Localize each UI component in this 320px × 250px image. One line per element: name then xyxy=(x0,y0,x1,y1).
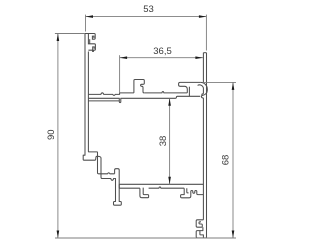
middle flange top surface left part with serration bumps xyxy=(88,93,133,96)
right wall top cap xyxy=(203,52,206,54)
bottom flange top surface with jog xyxy=(119,183,203,185)
dim 68 top extension line xyxy=(203,81,236,83)
lower glazing hook xyxy=(88,34,95,51)
bottom shared extension line xyxy=(55,237,236,239)
bottom foot inner step xyxy=(200,231,204,238)
dim 36,5 right arrowhead xyxy=(195,56,203,59)
svg-text:53: 53 xyxy=(143,4,154,15)
rounded nose outer arc xyxy=(201,82,208,100)
dim 90 bottom arrowhead xyxy=(57,231,60,239)
svg-text:38: 38 xyxy=(158,136,169,147)
dim 38 dimension line xyxy=(169,98,171,184)
dim 53 left extension line xyxy=(85,15,87,32)
bottom flange underside left piece xyxy=(119,187,140,189)
dim 53 dimension line xyxy=(86,16,207,18)
profile left wall outer edge with lower step foot xyxy=(83,34,114,181)
profile left wall inner edge with step to bottom flange xyxy=(88,52,114,174)
tab junction line xyxy=(118,184,120,188)
dim 68 dimension line xyxy=(232,82,234,238)
bottom foot on right wall xyxy=(196,227,206,238)
lower glazing hook bottom lip xyxy=(88,50,93,51)
upstand web right line xyxy=(188,87,190,97)
dim 90 top extension line xyxy=(55,33,85,35)
middle flange bottom surface with hanging tab xyxy=(88,96,200,102)
dim 53 left arrowhead xyxy=(86,15,94,18)
gasket J-hook under bottom flange xyxy=(140,188,149,198)
bottom clip hook on right wall xyxy=(196,220,203,227)
rounded nose inner arc xyxy=(198,85,204,95)
svg-text:90: 90 xyxy=(46,129,57,140)
dim 53 right extension line xyxy=(205,15,207,51)
dim 36,5 dimension line xyxy=(120,57,203,59)
svg-text:36,5: 36,5 xyxy=(153,46,172,57)
dim 38 bottom arrowhead xyxy=(168,177,171,185)
serrated screw channel near right wall xyxy=(181,188,204,198)
right wall outer edge xyxy=(206,53,208,238)
middle flange secondary bottom line xyxy=(88,100,119,102)
dim 38 top arrowhead xyxy=(168,98,171,106)
clip hook on middle flange xyxy=(134,80,144,93)
dim 68 top arrowhead xyxy=(232,82,235,90)
dim 36,5 left extension line xyxy=(119,55,121,92)
dim 53 right arrowhead xyxy=(199,15,207,18)
hook bar inner line xyxy=(89,39,91,44)
middle flange top surface right part with tick xyxy=(144,92,187,93)
screw channel inner lip xyxy=(187,188,189,193)
dim 68 bottom arrowhead xyxy=(232,231,235,239)
right wall inner edge upper segment xyxy=(202,53,204,83)
top edge and upper glazing hook xyxy=(85,34,95,40)
hanging tab with anchor foot xyxy=(114,169,122,206)
svg-text:68: 68 xyxy=(221,155,232,166)
right wall inner edge lower segment xyxy=(202,100,204,220)
dim 90 top arrowhead xyxy=(57,34,60,42)
rebate upstand beak with gasket slot xyxy=(179,82,201,93)
bottom flange underside right piece with jog xyxy=(149,187,185,188)
dim 36,5 left arrowhead xyxy=(120,56,128,59)
dim 90 dimension line xyxy=(57,34,59,239)
